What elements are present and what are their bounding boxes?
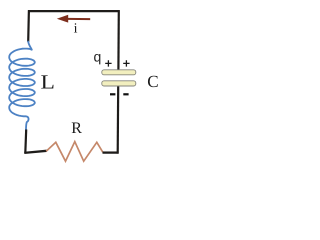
- svg-text:R: R: [71, 120, 82, 137]
- wire right upper: [117, 10, 120, 70]
- minus sign 1: [110, 93, 115, 95]
- wire left lower: [24, 130, 27, 154]
- capacitor C bottom plate: [102, 81, 136, 86]
- resistor R zigzag: [46, 142, 103, 162]
- plus sign 1: [105, 60, 111, 66]
- wire bottom right: [103, 151, 119, 153]
- capacitor C top plate: [102, 70, 136, 75]
- wire right lower: [117, 86, 120, 154]
- minus sign 2: [123, 93, 128, 95]
- svg-text:L: L: [41, 72, 55, 94]
- inductor L coil: [9, 42, 35, 133]
- svg-text:C: C: [147, 72, 158, 91]
- plus sign 2: [123, 60, 129, 66]
- current arrow: [68, 18, 91, 20]
- svg-text:q: q: [94, 49, 102, 65]
- wire left upper: [27, 10, 30, 42]
- wire top: [28, 10, 119, 12]
- wire bottom left: [24, 151, 46, 153]
- svg-text:i: i: [74, 21, 78, 36]
